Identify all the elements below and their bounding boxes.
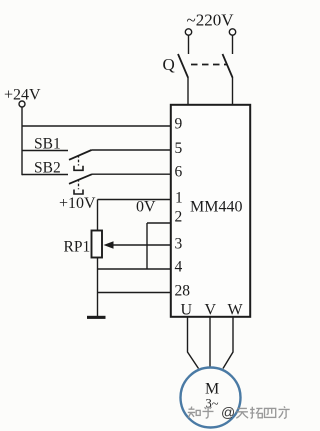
svg-text:~220V: ~220V xyxy=(187,11,235,30)
wire: +10V down to RP1 top xyxy=(97,200,99,231)
wire: pin 2 (0V) horizontal xyxy=(147,222,171,224)
terminal N (right supply) xyxy=(229,29,235,35)
svg-text:@: @ xyxy=(221,404,235,420)
svg-text:2: 2 xyxy=(175,209,183,226)
potentiometer RP1 body xyxy=(92,231,103,258)
switch Q mechanical linkage (dashed) xyxy=(191,64,227,66)
wire: Q pole 1 to MM440 xyxy=(187,77,189,105)
wire: SB2 to pin 6 xyxy=(92,173,171,175)
svg-text:1: 1 xyxy=(175,190,183,207)
motor M1 body xyxy=(181,368,241,428)
wire: pin U to motor xyxy=(188,318,199,369)
wire: SB1 to pin 5 xyxy=(92,149,172,151)
terminal L (left supply) xyxy=(185,29,191,35)
wire: +24V bus vertical xyxy=(21,107,23,175)
svg-text:+10V: +10V xyxy=(59,195,96,212)
svg-text:4: 4 xyxy=(175,259,183,276)
wire: pin W to motor xyxy=(223,318,233,369)
svg-text:M: M xyxy=(205,381,219,398)
svg-text:MM440: MM440 xyxy=(190,199,242,216)
ground xyxy=(87,316,106,319)
svg-text:6: 6 xyxy=(175,164,183,181)
svg-text:9: 9 xyxy=(175,116,183,133)
svg-text:Q: Q xyxy=(163,55,175,74)
pushbutton SB1 xyxy=(22,150,92,170)
wire: pin V to motor xyxy=(209,318,211,368)
terminal +24V xyxy=(19,101,25,107)
watermark 知乎 @天拓四方 xyxy=(188,406,290,418)
svg-text:0V: 0V xyxy=(136,199,156,216)
wire: Q pole 2 to MM440 xyxy=(232,77,234,105)
wire: RP1 bottom down to ground xyxy=(97,258,99,317)
inverter U1 MM440 body xyxy=(171,105,250,317)
svg-text:RP1: RP1 xyxy=(64,239,91,256)
potentiometer RP1 wiper arrow from pin 3 xyxy=(104,241,172,249)
svg-text:3: 3 xyxy=(175,236,183,253)
wire: +10V to pin 1 xyxy=(98,199,172,201)
wire: pin 28 to ground net xyxy=(98,292,172,294)
svg-text:28: 28 xyxy=(175,283,191,300)
wire: +24V to pin 9 xyxy=(22,125,171,127)
svg-text:V: V xyxy=(205,302,217,319)
wire: left terminal to switch Q xyxy=(188,35,190,54)
switch Q pole 1 blade xyxy=(178,54,188,78)
wire: right terminal to switch Q xyxy=(232,35,234,54)
pushbutton SB2 xyxy=(22,174,92,194)
svg-text:U: U xyxy=(181,302,193,319)
switch Q pole 2 blade xyxy=(223,54,233,78)
svg-text:W: W xyxy=(228,302,244,319)
wire: 0V vertical down to pin4 net xyxy=(146,223,148,269)
wire: pin 4 to RP1 bottom net xyxy=(98,268,172,270)
svg-text:5: 5 xyxy=(175,140,183,157)
